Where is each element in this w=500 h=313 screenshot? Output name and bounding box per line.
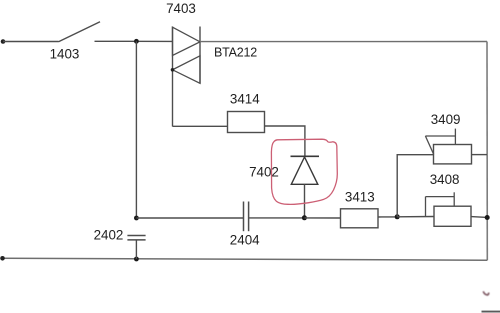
svg-text:3413: 3413	[345, 190, 375, 205]
junction: diode / middle wire	[302, 215, 307, 220]
node: left terminal bottom	[0, 256, 5, 261]
wire: triac lead down to resistor 3414	[173, 125, 228, 127]
triac 7403 lower triangle	[173, 56, 201, 84]
triac 7403 gate junction dot	[171, 68, 175, 72]
svg-text:2402: 2402	[94, 227, 124, 242]
svg-text:1403: 1403	[50, 46, 80, 61]
junction: right rail / 3408	[485, 215, 490, 220]
resistor 3409	[434, 145, 472, 164]
capacitor 2402 bottom plate	[127, 239, 145, 241]
svg-text:3409: 3409	[431, 112, 461, 127]
resistor 3413	[341, 209, 379, 228]
wire: cap 2404 to diode node	[249, 217, 305, 219]
red annotation loop around diode 7402	[271, 139, 337, 204]
triac 7403 left bar / MT2 lead	[172, 27, 174, 127]
diode 7402 cathode bar	[291, 155, 320, 157]
capacitor 2404 left plate	[243, 202, 245, 232]
junction: middle node	[134, 216, 139, 221]
capacitor 2402 top plate	[127, 235, 145, 237]
triac 7403 upper triangle	[173, 27, 201, 55]
red annotation tick bottom right	[483, 291, 488, 295]
junction: mid-right node	[395, 214, 400, 219]
wire: resistor 3409 to right rail	[472, 154, 488, 156]
wire: diode anode down to middle wire	[304, 184, 306, 218]
partial object edge bottom right	[482, 311, 500, 313]
resistor 3409 tap horizontal	[425, 135, 455, 137]
svg-text:3414: 3414	[230, 92, 260, 107]
resistor 3408 tap stub	[453, 192, 455, 206]
wire: top node down to middle node	[135, 41, 137, 218]
resistor 3408 tap horizontal	[426, 196, 455, 198]
resistor 3408	[434, 206, 471, 226]
wire: switch to triac	[95, 40, 173, 42]
bottom rail	[3, 258, 488, 260]
wire: triac MT1 to right rail (top wire)	[200, 41, 487, 43]
resistor 3409 tap stub	[454, 129, 456, 145]
right rail	[486, 42, 488, 261]
resistor 3414	[228, 112, 265, 133]
wire: resistor 3408 to right rail	[471, 216, 487, 219]
wire: diode node to resistor 3413	[304, 217, 340, 219]
wire: mid-right node up to resistor 3409 branch	[397, 155, 433, 217]
triac 7403 right bar	[199, 27, 201, 84]
junction: bottom rail / cap 2402	[134, 257, 139, 262]
node: left terminal top	[1, 39, 6, 44]
wire: left terminal to switch	[3, 41, 59, 43]
switch 1403 blade	[59, 22, 101, 42]
diode 7402 triangle	[291, 157, 318, 184]
capacitor 2404 right plate	[248, 202, 250, 232]
resistor 3408 tap left leg	[425, 197, 427, 217]
svg-text:3408: 3408	[430, 172, 460, 187]
svg-text:2404: 2404	[230, 232, 260, 247]
wire: middle node to cap 2404	[136, 217, 243, 219]
wire: cap 2402 to bottom rail	[135, 240, 137, 259]
wire: mid-right node to resistor 3408	[397, 216, 434, 218]
svg-text:7402: 7402	[249, 165, 279, 180]
svg-text:BTA212: BTA212	[214, 45, 257, 59]
resistor 3409 tap diagonal	[425, 136, 433, 154]
svg-text:7403: 7403	[166, 1, 196, 16]
junction: top node	[134, 39, 139, 44]
wire: resistor 3414 to diode top	[265, 126, 305, 156]
wire: resistor 3413 to mid-right node	[378, 216, 397, 218]
